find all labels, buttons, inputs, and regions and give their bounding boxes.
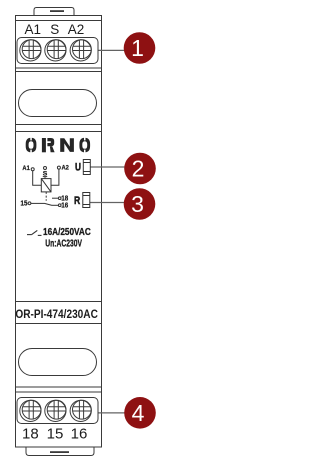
- svg-text:A1: A1: [22, 165, 30, 172]
- svg-text:U: U: [75, 162, 81, 174]
- svg-text:16: 16: [61, 200, 68, 209]
- svg-text:OR-PI-474/230AC: OR-PI-474/230AC: [15, 309, 98, 321]
- svg-text:R: R: [74, 195, 80, 207]
- svg-text:S: S: [50, 22, 59, 37]
- svg-text:18: 18: [22, 426, 39, 443]
- svg-text:15: 15: [21, 198, 28, 207]
- svg-text:16: 16: [71, 426, 88, 443]
- svg-text:15: 15: [47, 426, 64, 443]
- svg-text:Un:AC230V: Un:AC230V: [45, 238, 82, 249]
- svg-text:S: S: [43, 170, 48, 177]
- svg-text:2: 2: [132, 156, 145, 182]
- svg-text:A1: A1: [25, 22, 42, 37]
- svg-text:4: 4: [132, 400, 145, 426]
- svg-text:A2: A2: [68, 22, 85, 37]
- svg-text:1: 1: [131, 35, 144, 61]
- svg-text:16A/250VAC: 16A/250VAC: [43, 227, 91, 238]
- svg-text:A2: A2: [62, 165, 70, 172]
- svg-text:3: 3: [131, 191, 144, 217]
